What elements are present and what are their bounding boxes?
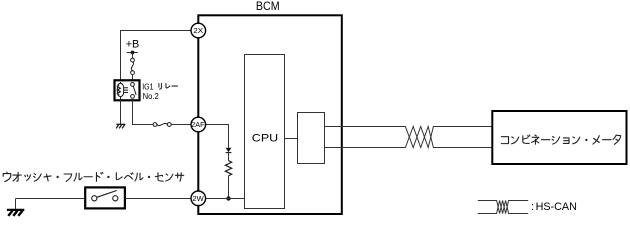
svg-text:No.2: No.2 xyxy=(143,92,159,101)
+B terminal node xyxy=(127,51,138,55)
wire resistor to 2W net xyxy=(228,176,230,199)
svg-text:2W: 2W xyxy=(192,194,204,203)
ground (sensor) xyxy=(7,210,24,216)
svg-text:HS-CAN: HS-CAN xyxy=(536,201,577,213)
ground (relay coil) xyxy=(116,124,125,128)
resistor R1 xyxy=(225,161,231,176)
wire relay coil to ground xyxy=(120,100,122,124)
wire ground to switch xyxy=(16,198,86,200)
BCM box xyxy=(198,15,341,214)
svg-text::: : xyxy=(531,201,534,213)
wire CPU to CAN block xyxy=(285,138,297,140)
relay contact xyxy=(131,83,137,99)
combination meter box xyxy=(492,111,626,164)
wire relay contact to fuse F2 xyxy=(133,100,154,124)
svg-text:CPU: CPU xyxy=(252,133,278,145)
svg-text:BCM: BCM xyxy=(256,1,280,13)
connector 2X xyxy=(191,23,206,38)
washer fluid level sensor switch box xyxy=(85,187,125,208)
junction node xyxy=(226,196,230,200)
svg-text:+B: +B xyxy=(126,39,140,51)
wire 2AF to pull-up branch xyxy=(206,125,229,148)
wire ground stem xyxy=(15,199,17,210)
svg-text:2AF: 2AF xyxy=(191,120,205,129)
CPU box U1 xyxy=(245,55,285,209)
CAN driver block xyxy=(298,113,325,164)
wire +B to fuse xyxy=(132,53,134,59)
wire CAN-H with twisted pair xyxy=(325,127,492,148)
fuse F2 (horizontal) xyxy=(153,123,171,127)
legend twisted pair symbol xyxy=(478,201,528,214)
IG1 relay label katakana xyxy=(159,83,178,89)
switch contacts xyxy=(92,191,118,201)
relay IG1 No.2 box xyxy=(115,80,140,100)
svg-text:2X: 2X xyxy=(193,26,203,35)
relay coil xyxy=(117,82,128,99)
wire 2W to CPU xyxy=(206,198,246,200)
connector 2AF xyxy=(191,117,206,132)
wire 2X to relay coil xyxy=(121,31,191,85)
combination meter label (katakana) xyxy=(501,135,620,144)
connector 2W xyxy=(191,191,206,206)
washer fluid level sensor label (katakana) xyxy=(3,172,184,181)
diode D1 xyxy=(226,148,232,153)
wire fuse to relay xyxy=(132,75,134,85)
wire switch to 2W xyxy=(125,198,191,200)
fuse F1 (vertical) xyxy=(131,58,135,74)
svg-text:IG1: IG1 xyxy=(142,82,153,91)
wire CAN-L with twisted pair xyxy=(325,127,492,148)
wire fuse F2 to 2AF xyxy=(171,124,191,126)
wire diode to resistor xyxy=(228,153,230,161)
